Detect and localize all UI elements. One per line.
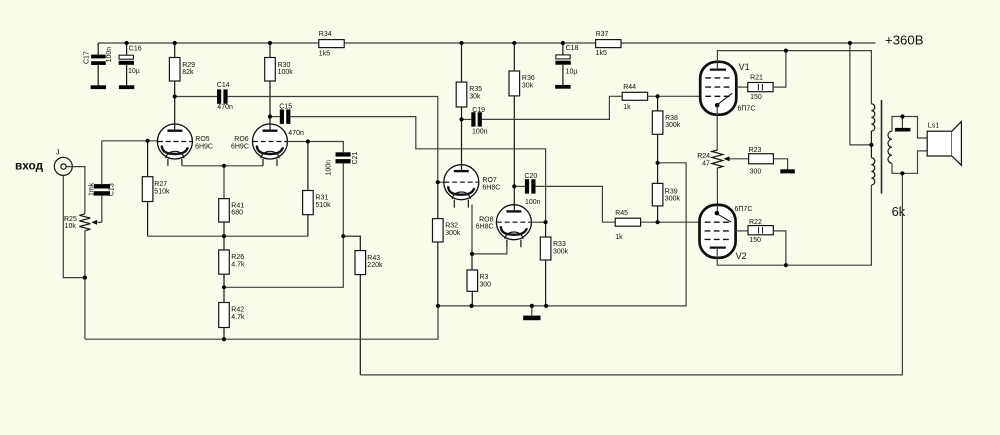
svg-text:C19: C19 <box>472 107 485 114</box>
resistor R34 <box>319 40 344 48</box>
ground bus <box>438 163 686 306</box>
svg-text:R24: R24 <box>697 153 710 160</box>
wire R22 to plate line <box>773 231 786 265</box>
triode RO6 6H9C <box>253 124 288 159</box>
node jack/R25 bottom <box>83 276 87 280</box>
resistor R45 <box>615 218 640 226</box>
svg-text:4.7k: 4.7k <box>231 314 245 321</box>
svg-text:30k: 30k <box>469 93 481 100</box>
svg-text:300k: 300k <box>445 230 461 237</box>
svg-text:R3: R3 <box>479 274 488 281</box>
resistor R44 <box>622 92 647 100</box>
node R42 bottom/ground line <box>222 337 226 341</box>
resistor R37 <box>596 40 621 48</box>
potentiometer R25 <box>79 214 90 231</box>
resistor R35 <box>461 43 463 82</box>
transformer primary winding top <box>871 104 874 131</box>
triode RO7 6H8C <box>444 165 479 200</box>
resistor R36 <box>513 43 515 71</box>
svg-text:1mk: 1mk <box>88 182 95 196</box>
capacitor C19 <box>462 118 472 120</box>
wire RO7/RO8 cathodes to R3 <box>472 205 507 254</box>
resistor R31 <box>307 142 309 191</box>
resistor R32 <box>433 219 444 242</box>
transformer primary winding bottom <box>871 158 874 185</box>
svg-text:C17: C17 <box>83 51 90 64</box>
node ground bus/ground symbol <box>530 304 534 308</box>
triode RO8 6H8C <box>496 205 531 240</box>
svg-text:C21: C21 <box>352 152 359 165</box>
wire input ground return <box>85 306 438 339</box>
wire RO8 grid to node <box>531 221 545 223</box>
node RO7 grid/R32/C14 <box>436 180 440 184</box>
svg-text:C15: C15 <box>279 103 292 110</box>
capacitor C13 <box>101 196 103 223</box>
wire bias node R27/R41/R26/R31 <box>148 235 308 237</box>
wire RO6 grid node <box>288 142 344 153</box>
output tube V1 6П7С <box>700 62 736 115</box>
wire secondary top <box>892 117 927 139</box>
wire C13 to RO5 grid <box>102 140 158 142</box>
node ground bus/R33 <box>544 304 548 308</box>
svg-text:R41: R41 <box>231 202 244 209</box>
svg-text:RO5: RO5 <box>195 136 210 143</box>
svg-text:V2: V2 <box>736 251 747 261</box>
svg-text:R37: R37 <box>596 31 609 38</box>
svg-text:R45: R45 <box>615 210 628 217</box>
ground bar at R23 <box>780 169 795 173</box>
svg-text:R32: R32 <box>445 223 458 230</box>
loudspeaker Ls1 <box>927 131 952 156</box>
resistor R33 <box>545 222 547 237</box>
svg-text:+360В: +360В <box>885 32 924 47</box>
capacitor C20 <box>514 185 525 187</box>
junction rail/C16 <box>125 41 129 45</box>
svg-text:100k: 100k <box>278 69 294 76</box>
wiper arrow of R24 <box>729 158 749 160</box>
node RO7-RO8 cathode/R3 <box>470 252 474 256</box>
svg-text:470n: 470n <box>217 104 233 111</box>
wire R45 to V2 grid <box>641 221 700 223</box>
svg-text:C20: C20 <box>524 173 537 180</box>
transformer secondary winding <box>888 131 892 163</box>
resistor R22 screen stopper <box>736 230 748 232</box>
svg-text:R30: R30 <box>278 62 291 69</box>
svg-text:510k: 510k <box>316 202 332 209</box>
svg-text:6k: 6k <box>892 204 906 219</box>
svg-text:RO8: RO8 <box>479 216 494 223</box>
resistor R42 <box>219 303 230 328</box>
svg-text:6Н9С: 6Н9С <box>195 143 213 150</box>
svg-text:Ls1: Ls1 <box>928 122 939 129</box>
node RO5 grid/R27 <box>146 139 150 143</box>
junction rail/R30 <box>268 41 272 45</box>
resistor R30 <box>269 43 271 58</box>
svg-text:C13: C13 <box>109 183 116 196</box>
capacitor C17 <box>97 43 99 55</box>
junction rail/OPT center tap <box>848 41 852 45</box>
junction rail/C18 <box>561 41 565 45</box>
svg-text:R44: R44 <box>623 84 636 91</box>
capacitor C21 <box>336 152 351 156</box>
wire C14 to RO7 grid <box>228 97 444 183</box>
svg-text:R31: R31 <box>316 195 329 202</box>
svg-text:R25: R25 <box>64 216 77 223</box>
node RO8 plate/R36/C20 <box>512 184 516 188</box>
wire R23 to ground <box>773 159 787 170</box>
node R38/R39/ground link <box>656 161 660 165</box>
svg-text:6Н9С: 6Н9С <box>231 143 249 150</box>
svg-text:V1: V1 <box>739 62 750 72</box>
resistor R26 <box>219 250 230 274</box>
svg-text:R22: R22 <box>749 219 762 226</box>
resistor R39 <box>657 163 659 184</box>
svg-text:150: 150 <box>750 94 762 101</box>
capacitor C18 electrolytic <box>562 43 564 55</box>
svg-text:510k: 510k <box>154 188 170 195</box>
svg-text:300: 300 <box>750 168 762 175</box>
resistor R41 <box>219 199 230 222</box>
junction OPT center tap <box>869 143 873 147</box>
node RO6 grid/R31/C21 <box>306 139 310 143</box>
junction rail/R35 <box>459 41 463 45</box>
svg-text:300: 300 <box>479 281 491 288</box>
wire C15 to RO8 grid <box>290 117 545 223</box>
wire secondary bottom <box>892 151 927 173</box>
svg-text:R27: R27 <box>154 181 167 188</box>
wire R21 to plate line <box>773 51 786 88</box>
svg-text:150: 150 <box>749 237 761 244</box>
svg-text:100n: 100n <box>525 199 541 206</box>
output tube V2 6П7С <box>700 205 736 258</box>
node C21/R43 <box>341 234 345 238</box>
svg-text:6П7С: 6П7С <box>738 106 756 113</box>
svg-text:RO7: RO7 <box>482 177 497 184</box>
ground bar of C16 <box>119 85 134 89</box>
junction OPT secondary top/ground <box>900 114 904 118</box>
ground bar of C17 <box>91 85 106 89</box>
ground symbol <box>531 306 533 316</box>
wire V2 plate to OPT <box>717 185 871 265</box>
wire jack sleeve down <box>63 175 85 277</box>
wire V1 cathode to R24 <box>716 105 718 150</box>
svg-text:R42: R42 <box>231 307 244 314</box>
wire R24 to V2 cathode <box>716 168 718 205</box>
svg-text:300k: 300k <box>665 196 681 203</box>
svg-text:RO6: RO6 <box>234 136 249 143</box>
svg-text:R29: R29 <box>182 62 195 69</box>
node RO7 plate/R35/C19 <box>459 117 463 121</box>
svg-text:R23: R23 <box>749 147 762 154</box>
svg-text:R35: R35 <box>469 86 482 93</box>
wire rail to OPT center tap <box>850 43 872 145</box>
svg-text:R38: R38 <box>665 115 678 122</box>
wire: rail right section to +360B <box>621 42 875 44</box>
svg-text:вход: вход <box>15 158 44 172</box>
node V2 grid/R39/R45 <box>656 220 660 224</box>
svg-text:1k5: 1k5 <box>596 50 607 57</box>
wire RO7 grid / R32 <box>437 182 439 218</box>
svg-text:470n: 470n <box>288 130 304 137</box>
wire feedback from secondary to R43 <box>360 173 902 375</box>
resistor R23 <box>749 154 774 164</box>
svg-text:1k: 1k <box>623 104 631 111</box>
svg-text:82k: 82k <box>182 69 194 76</box>
wire: +360V supply rail left section <box>98 42 319 44</box>
potentiometer R24 <box>712 150 723 168</box>
transformer core <box>881 100 883 194</box>
resistor R29 <box>174 43 176 58</box>
resistor R21 screen stopper <box>736 86 748 88</box>
svg-text:100n: 100n <box>472 129 488 136</box>
svg-text:47: 47 <box>702 161 710 168</box>
svg-text:10k: 10k <box>65 223 77 230</box>
svg-text:C14: C14 <box>217 82 230 89</box>
node RO6 plate/R30/C15 <box>268 115 272 119</box>
svg-text:R36: R36 <box>522 75 535 82</box>
node R26/R42/C21 <box>222 285 226 289</box>
svg-text:10µ: 10µ <box>566 69 578 76</box>
wire V1 plate to OPT <box>717 51 871 104</box>
wire R44 to V1 grid <box>648 95 701 97</box>
svg-text:C18: C18 <box>566 45 579 52</box>
ground bar of C18 <box>555 85 570 89</box>
svg-text:6Н8С: 6Н8С <box>476 223 494 230</box>
node R22/V2 plate line <box>784 263 788 267</box>
node ground bus/R3 <box>470 304 474 308</box>
svg-text:1k: 1k <box>615 234 623 241</box>
junction rail/R36 <box>512 41 516 45</box>
junction rail/R29 <box>173 41 177 45</box>
resistor R38 <box>657 96 659 111</box>
wiper arrow of R25 <box>96 221 102 223</box>
svg-text:4.7k: 4.7k <box>231 261 245 268</box>
wire cathode bus to R41 <box>223 166 225 199</box>
svg-text:30k: 30k <box>522 82 534 89</box>
wire R25 bottom to ground line <box>84 231 86 340</box>
svg-text:R39: R39 <box>665 188 678 195</box>
node V1 grid/R44/R38 <box>656 94 660 98</box>
wire C20 to R45 <box>536 186 616 222</box>
svg-text:100n: 100n <box>106 47 113 63</box>
wire cathode bus RO5-RO6 <box>182 165 263 167</box>
capacitor C14 <box>175 96 217 98</box>
junction OPT secondary bottom/feedback <box>900 171 904 175</box>
svg-text:R21: R21 <box>750 74 763 81</box>
resistor R27 <box>147 141 149 177</box>
resistor R43 <box>343 236 360 250</box>
svg-text:R26: R26 <box>231 254 244 261</box>
triode RO5 6H9C <box>157 124 192 159</box>
svg-text:R43: R43 <box>367 255 380 262</box>
node RO8 grid/R33/C15 <box>544 220 548 224</box>
wire C19 to R44 <box>482 96 622 119</box>
svg-text:R34: R34 <box>319 31 332 38</box>
svg-text:6П7С: 6П7С <box>735 206 753 213</box>
node RO5-RO6 cathode/R41 <box>222 164 226 168</box>
svg-text:680: 680 <box>231 209 243 216</box>
node ground bus/R32 <box>436 304 440 308</box>
svg-text:R33: R33 <box>553 241 566 248</box>
resistor R3 <box>471 254 473 270</box>
svg-text:J: J <box>56 150 60 157</box>
capacitor C16 electrolytic <box>126 43 128 55</box>
node R41/R26/R27/R31 <box>222 234 226 238</box>
input jack J <box>54 157 72 175</box>
wire: rail middle section <box>344 42 595 44</box>
wire jack tip to R25 <box>66 167 85 214</box>
node RO5 plate/R29/C14 <box>173 94 177 98</box>
svg-text:220k: 220k <box>367 262 383 269</box>
svg-text:300k: 300k <box>665 122 681 129</box>
svg-text:1k5: 1k5 <box>319 51 330 58</box>
node R21/V1 plate line <box>784 49 788 53</box>
capacitor C15 <box>270 116 280 118</box>
svg-text:300k: 300k <box>553 248 569 255</box>
svg-text:C16: C16 <box>129 45 142 52</box>
ground bar at secondary <box>901 117 903 128</box>
svg-text:6Н8С: 6Н8С <box>482 185 500 192</box>
svg-text:10µ: 10µ <box>128 68 140 75</box>
svg-text:100n: 100n <box>326 160 333 176</box>
